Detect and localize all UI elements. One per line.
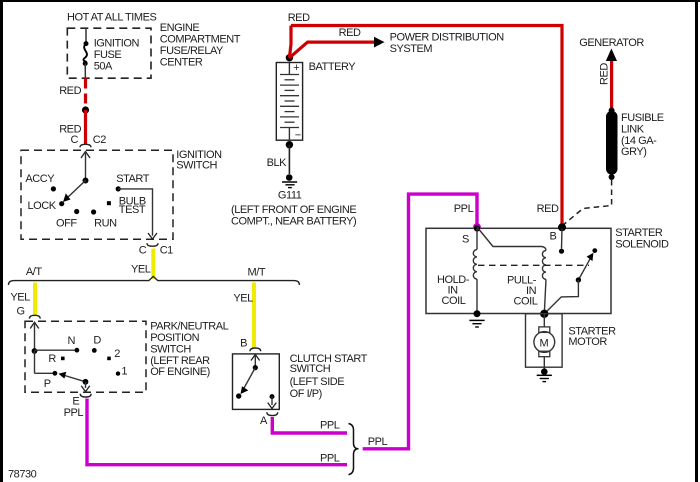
svg-text:+: + bbox=[293, 62, 299, 74]
svg-text:R: R bbox=[48, 353, 56, 365]
svg-text:SWITCH: SWITCH bbox=[176, 159, 217, 171]
solenoid switch arm bbox=[544, 248, 597, 314]
svg-text:RUN: RUN bbox=[94, 217, 117, 229]
label RED bbox=[59, 124, 81, 136]
svg-text:GENERATOR: GENERATOR bbox=[579, 37, 644, 49]
contact ACCY bbox=[25, 173, 56, 191]
svg-text:FUSE: FUSE bbox=[94, 49, 122, 61]
connector E bbox=[72, 394, 91, 408]
svg-text:YEL: YEL bbox=[10, 292, 30, 304]
connector C C1 bbox=[139, 243, 173, 256]
connector C C2 bbox=[71, 134, 107, 147]
wire RED battery to power distribution bbox=[289, 27, 384, 58]
wire START to C1 bbox=[118, 189, 157, 239]
svg-text:M/T: M/T bbox=[248, 267, 266, 279]
svg-text:COMPARTMENT: COMPARTMENT bbox=[160, 34, 241, 46]
solenoid contact from B bbox=[559, 229, 564, 254]
svg-text:P: P bbox=[44, 378, 51, 390]
label RED near B bbox=[537, 203, 559, 215]
svg-text:IGNITION: IGNITION bbox=[94, 38, 140, 50]
svg-text:ENGINE: ENGINE bbox=[160, 22, 200, 34]
svg-text:D: D bbox=[93, 334, 101, 346]
starter motor M bbox=[526, 314, 617, 369]
svg-text:SWITCH: SWITCH bbox=[290, 363, 331, 375]
svg-text:G111: G111 bbox=[278, 190, 302, 202]
contact D bbox=[92, 334, 102, 352]
svg-text:S: S bbox=[462, 234, 469, 246]
contact OFF bbox=[56, 209, 79, 229]
svg-text:B: B bbox=[550, 231, 557, 243]
svg-text:FUSIBLE: FUSIBLE bbox=[621, 112, 664, 124]
dashed mechanical link bbox=[478, 264, 589, 266]
svg-text:(LEFT SIDE: (LEFT SIDE bbox=[290, 376, 345, 388]
svg-text:A: A bbox=[260, 415, 268, 427]
wire RED bus to B terminal bbox=[291, 26, 562, 226]
svg-text:78730: 78730 bbox=[8, 469, 37, 481]
ground G111 bbox=[231, 174, 356, 227]
svg-text:RED: RED bbox=[537, 203, 559, 215]
wire RED fuse to junction bbox=[84, 78, 87, 103]
svg-text:SOLENOID: SOLENOID bbox=[615, 238, 669, 250]
branch brace A/T M/T bbox=[9, 266, 300, 285]
contact RUN bbox=[91, 209, 117, 229]
svg-text:MOTOR: MOTOR bbox=[568, 336, 607, 348]
ignition switch internals bbox=[63, 152, 90, 203]
svg-text:LINK: LINK bbox=[621, 123, 645, 135]
svg-text:TEST: TEST bbox=[119, 204, 146, 216]
svg-text:C2: C2 bbox=[93, 134, 106, 146]
wire YEL A/T branch bbox=[10, 283, 35, 318]
terminal S bbox=[462, 223, 481, 245]
svg-text:COMPT., NEAR BATTERY): COMPT., NEAR BATTERY) bbox=[231, 215, 356, 227]
label ENGINE COMPARTMENT FUSE/RELAY CENTER bbox=[160, 22, 241, 68]
junction bbox=[82, 106, 89, 113]
connector B (clutch) bbox=[240, 338, 261, 352]
svg-text:(LEFT REAR: (LEFT REAR bbox=[150, 355, 210, 367]
svg-text:B: B bbox=[240, 338, 247, 350]
svg-text:YEL: YEL bbox=[233, 293, 253, 305]
wire YEL M/T branch bbox=[233, 283, 254, 349]
connector G bbox=[29, 315, 40, 318]
svg-text:PPL: PPL bbox=[320, 453, 340, 465]
wire PPL upper (A to splice) bbox=[272, 417, 347, 433]
hold-in coil bbox=[437, 229, 477, 314]
svg-text:(LEFT FRONT OF ENGINE: (LEFT FRONT OF ENGINE bbox=[231, 204, 356, 216]
svg-text:OF I/P): OF I/P) bbox=[290, 388, 322, 400]
pull-in coil bbox=[477, 227, 546, 314]
ground at starter motor bbox=[537, 368, 552, 381]
svg-text:POWER DISTRIBUTION: POWER DISTRIBUTION bbox=[390, 32, 505, 44]
svg-text:RED: RED bbox=[288, 12, 310, 24]
fuse block box (ENGINE COMPARTMENT FUSE/RELAY CENTER) bbox=[67, 28, 151, 78]
svg-text:PARK/NEUTRAL: PARK/NEUTRAL bbox=[150, 321, 228, 333]
svg-text:M: M bbox=[540, 337, 549, 349]
starter solenoid box bbox=[426, 227, 669, 314]
wire RED battery to bus corner bbox=[289, 26, 291, 58]
wire PPL splice to S terminal bbox=[363, 194, 477, 449]
svg-text:1: 1 bbox=[121, 366, 127, 378]
svg-text:YEL: YEL bbox=[131, 264, 151, 276]
junction node (solenoid output) bbox=[540, 310, 548, 318]
contact LOCK bbox=[28, 200, 65, 212]
svg-text:START: START bbox=[116, 173, 150, 185]
svg-text:N: N bbox=[68, 335, 76, 347]
contact START bbox=[116, 173, 150, 191]
svg-text:BLK: BLK bbox=[267, 157, 288, 169]
clutch switch internals bbox=[236, 354, 276, 408]
wire BLK battery to G111 bbox=[267, 145, 290, 174]
wire RED junction to C2 bbox=[84, 110, 87, 144]
svg-text:BATTERY: BATTERY bbox=[309, 61, 357, 73]
battery bbox=[276, 54, 356, 148]
svg-text:G: G bbox=[17, 306, 25, 318]
svg-text:−: − bbox=[295, 130, 301, 142]
svg-text:RED: RED bbox=[599, 63, 611, 85]
svg-text:CENTER: CENTER bbox=[160, 56, 203, 68]
svg-text:PPL: PPL bbox=[320, 420, 340, 432]
contact N bbox=[68, 335, 80, 353]
svg-text:50A: 50A bbox=[94, 61, 113, 73]
svg-text:PPL: PPL bbox=[454, 203, 474, 215]
svg-text:RED: RED bbox=[59, 85, 81, 97]
svg-text:A/T: A/T bbox=[26, 266, 42, 278]
svg-text:OFF: OFF bbox=[56, 217, 77, 229]
svg-text:E: E bbox=[72, 396, 79, 408]
svg-text:ACCY: ACCY bbox=[25, 173, 55, 185]
park/neutral position switch box bbox=[25, 321, 229, 393]
contact R bbox=[48, 353, 64, 365]
svg-text:C: C bbox=[71, 134, 79, 146]
svg-text:OF ENGINE): OF ENGINE) bbox=[150, 366, 210, 378]
ignition switch box bbox=[21, 149, 222, 239]
label RED bbox=[288, 12, 310, 24]
connector A bbox=[260, 412, 278, 427]
svg-text:GRY): GRY) bbox=[621, 146, 647, 158]
svg-text:SYSTEM: SYSTEM bbox=[390, 43, 433, 55]
contact 1 bbox=[116, 366, 128, 378]
svg-text:LOCK: LOCK bbox=[28, 200, 57, 212]
splice brace PPL bbox=[349, 424, 388, 475]
dashed wire fusible link to B terminal bbox=[563, 180, 612, 226]
clutch start switch box bbox=[233, 353, 368, 410]
contact 2 bbox=[107, 348, 120, 360]
terminal B bbox=[550, 223, 567, 242]
park/neutral internals bbox=[30, 322, 90, 391]
label POWER DISTRIBUTION SYSTEM bbox=[390, 32, 505, 56]
label RED bbox=[59, 85, 81, 97]
contact BULB TEST bbox=[107, 196, 146, 217]
wire PPL lower (E to splice) bbox=[64, 399, 347, 465]
svg-text:SWITCH: SWITCH bbox=[150, 343, 191, 355]
svg-text:HOT AT ALL TIMES: HOT AT ALL TIMES bbox=[67, 12, 157, 24]
fuse IGNITION FUSE 50A bbox=[83, 28, 140, 78]
svg-text:2: 2 bbox=[114, 348, 120, 360]
svg-text:COIL: COIL bbox=[514, 296, 538, 308]
fusible link F (14 GA GRY) bbox=[606, 108, 664, 181]
svg-text:POSITION: POSITION bbox=[150, 332, 199, 344]
label 78730 bbox=[8, 469, 37, 481]
ground at solenoid bbox=[469, 310, 484, 327]
wire RED to generator bbox=[599, 61, 612, 110]
svg-text:PPL: PPL bbox=[368, 436, 388, 448]
svg-text:PPL: PPL bbox=[64, 407, 84, 419]
label HOT AT ALL TIMES bbox=[67, 12, 157, 24]
svg-text:C1: C1 bbox=[160, 245, 173, 257]
wire YEL C1 to brace bbox=[131, 249, 153, 279]
label GENERATOR bbox=[579, 37, 644, 61]
svg-text:(14 GA-: (14 GA- bbox=[621, 135, 657, 147]
svg-text:RED: RED bbox=[339, 27, 361, 39]
svg-text:FUSE/RELAY: FUSE/RELAY bbox=[160, 45, 224, 57]
svg-text:C: C bbox=[139, 245, 147, 257]
svg-text:STARTER: STARTER bbox=[615, 227, 663, 239]
contact P bbox=[44, 371, 58, 390]
svg-text:COIL: COIL bbox=[442, 295, 466, 307]
